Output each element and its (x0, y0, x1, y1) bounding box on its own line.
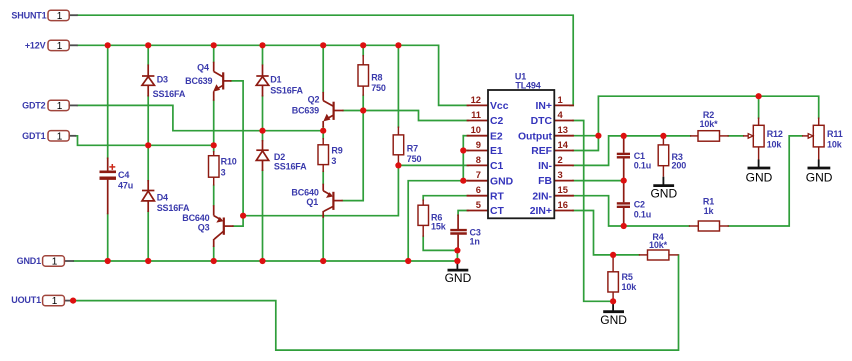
svg-text:Q2: Q2 (308, 95, 320, 105)
resistor R4 10k* (horizontal) (639, 250, 679, 260)
resistor R6 15k (418, 200, 429, 237)
connector GDT2 pin stub (69, 104, 78, 106)
wire Q4 collector from rail (213, 45, 215, 62)
wire R8 bottom to base bus (362, 95, 364, 110)
wire +12V to C4 column down to GND rail (107, 45, 109, 158)
wire Q2 emitter to GDT2 node (322, 127, 324, 131)
svg-text:GND: GND (490, 176, 514, 187)
junction +12V/R7 (395, 42, 401, 48)
junction Output/REF node (595, 133, 601, 139)
connector UOUT1 box (43, 295, 65, 305)
junction C2 bottom / 2IN- (621, 223, 627, 229)
wire +12V rail (78, 45, 469, 105)
svg-text:C4: C4 (118, 170, 129, 180)
svg-text:10k: 10k (622, 282, 638, 292)
junction E1 pin tie (460, 147, 466, 153)
svg-text:16: 16 (558, 199, 568, 210)
svg-text:0.1u: 0.1u (634, 160, 651, 170)
svg-text:C1: C1 (634, 151, 645, 161)
svg-text:SHUNT1: SHUNT1 (11, 10, 46, 20)
junction top line R12 (756, 93, 762, 99)
svg-text:15: 15 (558, 184, 568, 195)
wire R9 bottom to Q1 emitter (322, 172, 324, 184)
svg-text:14: 14 (558, 139, 569, 150)
svg-text:D3: D3 (157, 75, 168, 85)
junction GND rail C4 (105, 258, 111, 264)
connector GDT1 pin stub (69, 135, 76, 137)
svg-text:SS16FA: SS16FA (270, 86, 303, 96)
svg-text:4: 4 (558, 109, 564, 120)
resistor R2 10k* (horizontal) (690, 131, 729, 142)
svg-text:GND: GND (806, 171, 833, 185)
wire Q3 collector to GND rail (213, 247, 215, 261)
svg-text:1: 1 (57, 131, 63, 142)
wire GDT2 line to D2 top (262, 131, 264, 141)
diode D1 SS16FA (256, 65, 268, 97)
wire D3 column: rail to D3 (147, 45, 149, 64)
junction GDT1/D3-D4 (145, 142, 151, 148)
svg-text:12: 12 (471, 94, 481, 105)
junction C3/R6 node (454, 247, 460, 253)
svg-text:TL494: TL494 (515, 81, 540, 91)
resistor R5 10k (608, 255, 619, 301)
wire D3 bottom to GDT1 line (147, 96, 149, 145)
svg-text:GDT2: GDT2 (22, 101, 46, 111)
ground under R12 (748, 160, 771, 169)
wire R12 top from top line (758, 96, 760, 118)
svg-text:R9: R9 (331, 146, 342, 156)
wire R1 right up to R11 wiper (729, 136, 803, 226)
wire D1 bottom to GDT2 line (262, 96, 264, 131)
junction GDT2/D2 (259, 128, 265, 134)
transistor Q2 BC639 (NPN) (323, 92, 343, 127)
junction GND rail D4 (145, 258, 151, 264)
svg-text:13: 13 (558, 124, 568, 135)
svg-text:200: 200 (672, 160, 687, 170)
wire D2 bottom to GND rail (262, 171, 264, 262)
svg-text:Q3: Q3 (198, 222, 210, 232)
svg-text:750: 750 (371, 83, 386, 93)
svg-text:2IN+: 2IN+ (530, 206, 552, 217)
svg-text:9: 9 (476, 139, 481, 150)
svg-text:GDT1: GDT1 (22, 131, 46, 141)
svg-text:1k: 1k (704, 206, 715, 216)
svg-text:R1: R1 (703, 196, 714, 206)
wire Q2 collector from rail (322, 45, 324, 92)
junction GND rail Q1 (320, 258, 326, 264)
junction GND rail pin7 (405, 258, 411, 264)
svg-text:8: 8 (476, 154, 481, 165)
wire 2IN- pin 15 step down to C2 bottom / R1 line (573, 196, 689, 226)
connector UOUT1 pin stub (64, 300, 70, 302)
svg-text:10: 10 (471, 124, 481, 135)
pin stubs U1 left (12,11,10,9,8,7,6,5) (468, 104, 488, 106)
svg-text:+12V: +12V (25, 41, 46, 51)
svg-text:RT: RT (490, 191, 505, 202)
svg-text:REF: REF (531, 146, 552, 157)
junction R3 top (660, 133, 666, 139)
junction GDT2/Q2 emitter (320, 128, 326, 134)
ground under R11 (808, 160, 831, 169)
svg-text:SS16FA: SS16FA (157, 203, 190, 213)
connector SHUNT1 box (48, 10, 69, 20)
svg-text:1: 1 (57, 101, 63, 112)
junction +12V/Q4 (211, 42, 217, 48)
connector SHUNT1 pin stub (69, 14, 78, 16)
svg-text:R7: R7 (407, 144, 418, 154)
wire CT pin 5 to C3 top (458, 211, 468, 216)
wire FB pin 3 to C1/C2 node (573, 180, 624, 182)
svg-text:Output: Output (518, 131, 553, 142)
capacitor C1 0.1u (617, 136, 630, 181)
wire GDT1 net: connector step to node at Q4 emitter/R10 (76, 136, 214, 146)
wire C4 bottom to GND rail (107, 214, 109, 261)
wire GDT2 node to R9 top (322, 131, 324, 139)
wire E1 pin 9 little link (463, 150, 468, 152)
svg-text:GND: GND (600, 313, 627, 327)
resistor R1 1k (horizontal) (689, 221, 729, 231)
junction base bus Q1/Q2 R8 (360, 107, 366, 113)
junction C1 top (621, 133, 627, 139)
svg-text:R10: R10 (221, 157, 237, 167)
wire GDT1 line to D4 top (147, 145, 149, 180)
wire R7 bottom node down to driver base line (243, 165, 398, 215)
svg-text:3: 3 (558, 169, 563, 180)
wire D4 bottom to GND rail (147, 212, 149, 262)
svg-text:1: 1 (52, 257, 58, 268)
wire 2IN+ pin 16 step down to R4/R5 node (573, 211, 639, 255)
svg-text:Q4: Q4 (197, 63, 209, 73)
svg-text:GND: GND (445, 271, 472, 285)
svg-text:C2: C2 (634, 200, 645, 210)
svg-text:E2: E2 (490, 131, 503, 142)
capacitor C4 47u (polarized) (100, 158, 117, 215)
wire R7 top from rail (397, 45, 399, 127)
resistor R3 200 (658, 136, 669, 177)
svg-text:11: 11 (471, 109, 481, 120)
resistor R7 750 (393, 127, 404, 166)
potentiometer R12 10k (743, 118, 764, 161)
wire GND1 rail (74, 260, 458, 262)
op-amp U1 TL494 body (488, 90, 554, 218)
wire DTC pin 4 down to R5 bottom / ground node (573, 121, 613, 302)
svg-text:750: 750 (407, 154, 422, 164)
wire D1 column: rail to D1 (262, 45, 264, 64)
svg-text:R12: R12 (767, 129, 783, 139)
wire Q2/Q1 base bus: to R8 node, step to U1 pin 11 C2 (343, 111, 468, 121)
svg-text:IN+: IN+ (536, 101, 552, 112)
junction +12V/Q2 (320, 42, 326, 48)
connector GND1 box (43, 256, 65, 266)
svg-text:10k: 10k (767, 140, 783, 150)
svg-text:10k*: 10k* (649, 240, 668, 250)
svg-text:5: 5 (476, 199, 481, 210)
wire GDT1 node to R10 top (213, 145, 215, 151)
svg-text:Vcc: Vcc (490, 101, 509, 112)
junction R4/R5/2IN+ (610, 252, 616, 258)
svg-text:0.1u: 0.1u (634, 209, 651, 219)
svg-text:DTC: DTC (531, 116, 553, 127)
svg-text:BC639: BC639 (185, 76, 212, 86)
svg-text:SS16FA: SS16FA (274, 161, 307, 171)
transistor Q4 BC639 (NPN) (213, 62, 232, 101)
junction base bus Q3/Q4 (240, 213, 246, 219)
wire C3/R6 node down to GND rail (456, 250, 458, 261)
connector +12V box (48, 40, 69, 50)
wire R8 top from rail (362, 45, 364, 55)
wire output node up and across to pots R12 R11 tops (598, 96, 818, 136)
connector GND1 pin stub (64, 260, 74, 262)
wire REF pin 14 up to output node (573, 136, 598, 151)
wire Q4 emitter down to GDT1 node (213, 100, 215, 145)
svg-text:R11: R11 (827, 129, 843, 139)
resistor R10 3 (209, 151, 220, 186)
svg-text:FB: FB (538, 176, 552, 187)
wire Output pin 13 to node (573, 135, 598, 137)
svg-text:10k: 10k (827, 140, 843, 150)
wire R7 bottom node to U1 pin 8 C1 (398, 163, 468, 165)
diode D2 SS16FA (256, 140, 268, 171)
wire R4 right down to bottom UOUT wire (73, 255, 678, 350)
svg-text:15k: 15k (431, 222, 447, 232)
svg-text:GND1: GND1 (17, 256, 42, 266)
junction R7 bottom / C1 pin (395, 162, 401, 168)
junction GDT1/Q4 emitter (211, 142, 217, 148)
resistor R9 3 (318, 138, 329, 172)
svg-text:IN-: IN- (538, 161, 552, 172)
svg-text:BC639: BC639 (292, 106, 319, 116)
wire R2 right to R12 wiper (728, 135, 743, 137)
wire IN- pin 2 up to C1/R3/R2 line (573, 136, 690, 166)
junction GND rail Q3 (211, 258, 217, 264)
junction +12V/D3 (145, 42, 151, 48)
svg-text:7: 7 (476, 169, 481, 180)
svg-text:3: 3 (221, 167, 226, 177)
diode D3 SS16FA (142, 65, 154, 97)
wire Q4/Q3 base bus vertical (231, 81, 243, 226)
svg-text:R8: R8 (371, 73, 382, 83)
svg-text:2: 2 (558, 154, 563, 165)
svg-text:1: 1 (57, 11, 63, 22)
pin stubs U1 right (1,4,13,14,2,3,15,16) (554, 104, 573, 106)
svg-text:1: 1 (57, 41, 63, 52)
junction UOUT connector (70, 298, 76, 304)
diode D4 SS16FA (142, 180, 154, 212)
svg-text:SS16FA: SS16FA (153, 89, 186, 99)
transistor Q3 BC640 (PNP) (214, 205, 234, 247)
junction GND pin tie (460, 178, 466, 184)
junction GND rail symbol (454, 258, 460, 264)
svg-text:3: 3 (331, 156, 336, 166)
wire SHUNT net: connector to U1 pin 1 IN+ (78, 15, 574, 105)
svg-text:Q1: Q1 (306, 197, 318, 207)
junction +12V/D1 (259, 42, 265, 48)
wire Q1 collector to GND rail (322, 217, 324, 261)
connector GDT1 box (48, 131, 69, 141)
wire GND pin 7 to GND rail (408, 181, 463, 261)
svg-text:10k*: 10k* (700, 119, 719, 129)
svg-text:C2: C2 (490, 116, 504, 127)
junction GND rail D2 (259, 258, 265, 264)
svg-text:2IN-: 2IN- (532, 191, 552, 202)
svg-text:R5: R5 (622, 272, 633, 282)
svg-text:GND: GND (746, 171, 773, 185)
junction +12V/R8 (360, 42, 366, 48)
svg-text:6: 6 (476, 184, 481, 195)
svg-text:D1: D1 (270, 75, 281, 85)
wire RT pin 6 to R6 top (423, 196, 468, 200)
ground under R5 (603, 301, 624, 311)
junction +12V/C4 (105, 42, 111, 48)
wire GDT2 net: connector, step down, to Q2 emitter node (78, 105, 324, 130)
transistor Q1 BC640 (PNP) (323, 184, 343, 218)
junction FB/C1/C2 (621, 178, 627, 184)
svg-text:D4: D4 (157, 193, 168, 203)
wire R6 bottom to C3/GND node (423, 236, 457, 250)
svg-text:1: 1 (52, 296, 58, 307)
svg-text:1n: 1n (470, 237, 480, 247)
wire base bus vertical down to Q1 base (342, 111, 363, 201)
svg-text:C1: C1 (490, 161, 504, 172)
junction R5 bottom / DTC / GND (610, 298, 616, 304)
capacitor C2 0.1u (617, 181, 630, 226)
ground under R3 (653, 177, 674, 186)
capacitor C3 1n (450, 215, 467, 251)
wire R10 bottom to Q3 emitter (213, 185, 215, 205)
svg-text:E1: E1 (490, 146, 503, 157)
connector GDT2 box (48, 100, 69, 110)
ground under C3/R6 node (448, 261, 469, 270)
potentiometer R11 10k (802, 118, 824, 161)
resistor R8 750 (358, 55, 369, 96)
svg-text:UOUT1: UOUT1 (11, 295, 41, 305)
wire E2 pin 10 little link (463, 135, 468, 137)
svg-text:GND: GND (650, 187, 677, 201)
connector +12V pin stub (69, 44, 78, 46)
svg-text:CT: CT (490, 206, 505, 217)
svg-text:1: 1 (558, 94, 563, 105)
svg-text:47u: 47u (118, 181, 133, 191)
wire E2/E1 tie vertical at U1 (463, 136, 468, 181)
